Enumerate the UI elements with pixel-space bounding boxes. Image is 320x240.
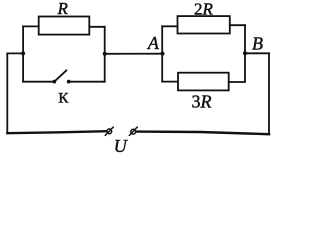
wire left branch vertical [22, 26, 24, 81]
svg-text:3R: 3R [192, 92, 212, 112]
svg-text:2R: 2R [194, 0, 214, 18]
resistor 3R [178, 73, 229, 91]
wire switch left segment [23, 81, 54, 83]
wire left junction to rail [7, 52, 23, 54]
wire left rail [6, 53, 8, 133]
wire 3R right lead [229, 81, 245, 83]
terminal right (circle with slash) [129, 127, 138, 136]
wire right rail [268, 53, 270, 134]
node junction dot left [21, 51, 25, 55]
svg-text:R: R [57, 0, 69, 18]
wire 3R left lead [162, 81, 178, 83]
svg-text:A: A [147, 33, 160, 53]
wire node B to right rail [245, 52, 269, 54]
resistor 2R [178, 16, 230, 33]
wire 2R left lead [162, 25, 177, 27]
node A dot [161, 52, 165, 56]
node junction dot right [103, 52, 107, 56]
wire parallel right vertical [244, 25, 246, 82]
node B dot [243, 51, 247, 55]
terminal left (circle with slash) [105, 127, 114, 136]
svg-text:U: U [114, 136, 128, 155]
svg-text:B: B [252, 34, 263, 54]
switch K blade [55, 70, 67, 81]
wire right branch vertical [104, 27, 106, 82]
wire parallel left vertical [161, 26, 163, 81]
resistor R [39, 17, 90, 35]
switch K right contact dot [67, 80, 71, 84]
wire switch right segment [69, 81, 105, 83]
wire 2R right lead [230, 24, 245, 26]
wire junction to node A [105, 53, 163, 55]
switch K left contact dot [52, 80, 56, 84]
svg-text:К: К [58, 91, 69, 107]
wire bottom left [7, 131, 106, 133]
wire bottom right [137, 132, 270, 135]
wire R right lead [89, 26, 104, 28]
wire R left lead [23, 25, 39, 27]
